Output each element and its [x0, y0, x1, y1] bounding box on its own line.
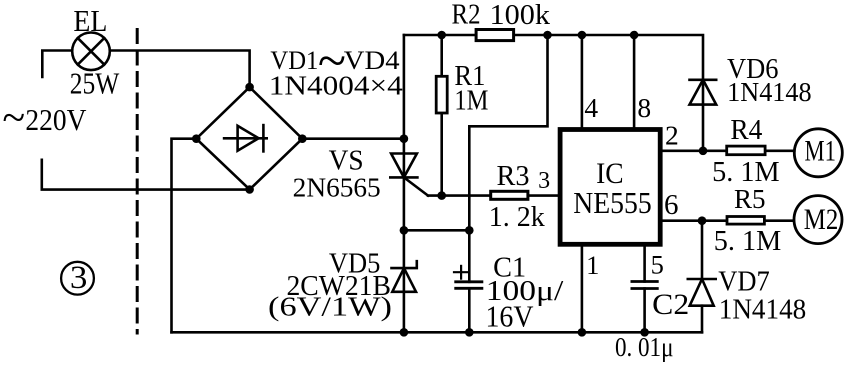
capacitor C1 plates: [456, 282, 482, 289]
node rail C1: [465, 328, 474, 337]
resistor R2: [476, 30, 513, 41]
svg-text:3: 3: [70, 260, 88, 296]
wire AC bottom terminal stub to bridge bottom vertex: [42, 160, 250, 190]
svg-text:25W: 25W: [70, 66, 120, 101]
svg-text:2N6565: 2N6565: [293, 173, 381, 203]
node C1 top: [465, 226, 474, 235]
svg-text:1N4004×4: 1N4004×4: [269, 71, 404, 101]
svg-text:100k: 100k: [490, 0, 551, 31]
resistor R4: [727, 146, 765, 155]
wire main DC vertical line through VS and VD5: [403, 35, 406, 332]
node VD7 top on pin6 wire: [698, 216, 707, 225]
node bridge top: [245, 83, 254, 92]
circled figure number 3: [61, 262, 94, 295]
node R1 bottom on gate wire: [437, 191, 446, 200]
wire bottom rail: [172, 331, 703, 334]
pin 6 wire: [661, 219, 794, 222]
svg-text:220V: 220V: [25, 102, 87, 137]
node VD6 anode on pin2 wire: [699, 147, 708, 156]
node rail C2: [640, 328, 649, 337]
node zigzag top: [543, 31, 552, 40]
node VS cathode: [400, 226, 409, 235]
wire zigzag from top rail to C1 top plate: [469, 35, 547, 282]
node pin 4 top: [578, 31, 587, 40]
svg-text:1. 2k: 1. 2k: [489, 201, 545, 233]
diode VD7 vertical wire from pin6 node: [701, 221, 704, 279]
svg-text:1N4148: 1N4148: [727, 77, 812, 107]
wire lamp to bridge top vertex: [110, 51, 250, 88]
wire bridge DC- left vertex down to bottom rail: [172, 139, 197, 333]
node rail pin1: [578, 328, 587, 337]
node DC+ at SCR line: [400, 134, 409, 143]
svg-text:(6V/1W): (6V/1W): [268, 291, 392, 322]
resistor R3: [491, 191, 528, 199]
wire VD7 to rail end: [701, 306, 704, 333]
svg-text:0. 01μ: 0. 01μ: [615, 331, 674, 362]
pin 8 wire: [633, 35, 636, 128]
motor M1: [794, 129, 842, 177]
svg-text:M1: M1: [804, 134, 836, 167]
node R1 top: [437, 31, 446, 40]
zener diode VD5: [392, 261, 417, 292]
svg-text:VD7: VD7: [718, 267, 770, 298]
diode VD7: [688, 279, 716, 306]
pin 5 wire: [643, 245, 646, 282]
thyristor VS: [390, 154, 428, 196]
svg-text:1: 1: [586, 250, 599, 280]
svg-text:16V: 16V: [486, 300, 534, 334]
wire C1 bottom to rail: [468, 288, 471, 332]
bridge rectifier VD1-VD4 diamond: [196, 87, 302, 189]
svg-text:5: 5: [651, 250, 664, 280]
svg-text:NE555: NE555: [573, 185, 652, 220]
motor M2: [794, 196, 842, 244]
IC U1 NE555 box: [560, 130, 660, 245]
svg-text:4: 4: [584, 92, 598, 123]
svg-text:1N4148: 1N4148: [719, 295, 807, 326]
dashed separator line: [136, 30, 139, 334]
svg-text:C2: C2: [652, 288, 689, 321]
svg-text:R3: R3: [497, 160, 530, 192]
wire top rail with corner down through VD6 to pin2 wire: [404, 35, 703, 151]
node bridge right: [298, 134, 307, 143]
diode VD6: [690, 80, 717, 105]
resistor R5: [727, 217, 764, 225]
svg-text:3: 3: [538, 168, 550, 194]
svg-text:2: 2: [665, 120, 679, 151]
node rail VD5: [400, 328, 409, 337]
wire gate / R3 wire to IC pin 3: [428, 194, 558, 197]
svg-text:EL: EL: [73, 3, 107, 38]
plus sign of C1: [454, 266, 468, 279]
wire VS cathode node to C1 line: [404, 229, 469, 232]
wire AC top terminal stub to lamp: [42, 51, 72, 78]
diode symbol inside bridge: [224, 125, 267, 151]
svg-text:R4: R4: [730, 114, 762, 146]
pin 4 wire: [581, 35, 584, 128]
pin 2 wire: [661, 150, 794, 153]
node pin 8 top: [630, 31, 639, 40]
wire C2 bottom to rail: [643, 289, 646, 333]
node bridge bottom: [245, 185, 254, 194]
wire R1 vertical line: [440, 35, 443, 196]
pin 1 wire: [581, 245, 584, 332]
lamp EL: [72, 33, 110, 71]
svg-text:R2: R2: [452, 0, 481, 31]
resistor R1: [436, 76, 447, 113]
node bridge left: [192, 134, 201, 143]
svg-text:5. 1M: 5. 1M: [714, 226, 782, 257]
svg-text:1M: 1M: [454, 85, 488, 117]
wire bridge DC+ right vertex to SCR line: [302, 137, 404, 140]
svg-text:8: 8: [637, 92, 651, 123]
capacitor C2 plates: [632, 282, 657, 289]
svg-text:M2: M2: [804, 204, 839, 236]
svg-text:~: ~: [2, 96, 25, 142]
svg-text:6: 6: [664, 189, 679, 221]
svg-text:R5: R5: [734, 183, 766, 214]
